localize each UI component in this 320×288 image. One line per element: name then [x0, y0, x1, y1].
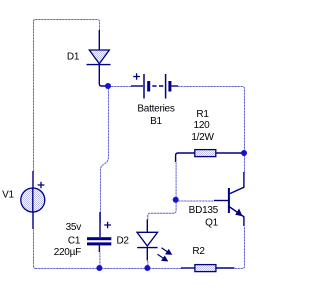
- wire LED cathode to bottom rail: [147, 261, 149, 269]
- svg-text:Q1: Q1: [205, 218, 219, 229]
- wire right rail from R1 junction down to Q1 collector stub: [244, 156, 246, 173]
- LED D2: [137, 220, 158, 261]
- wire R1 left lead vertical down to base junction: [175, 163, 177, 198]
- resistor R1: [176, 150, 242, 162]
- svg-text:R2: R2: [192, 246, 205, 257]
- node junction at Q1 base / R1 left: [173, 197, 179, 203]
- resistor R2: [181, 265, 235, 272]
- wire from D1 junction to battery left terminal: [109, 86, 132, 88]
- V1 plus mark: [38, 182, 45, 189]
- wire middle vertical from D1 junction down with jog to C1: [101, 89, 109, 223]
- wire top rail from V1 to D1: [34, 20, 100, 31]
- svg-text:B1: B1: [150, 116, 162, 127]
- svg-text:V1: V1: [2, 190, 14, 201]
- capacitor C1: [87, 212, 111, 252]
- svg-text:Batteries: Batteries: [137, 104, 174, 115]
- voltage source V1: [21, 171, 45, 229]
- wire bottom rail (left corner to R2 left lead): [36, 268, 182, 270]
- svg-text:35v: 35v: [66, 222, 82, 233]
- wire left rail upper (top corner to V1 top terminal): [33, 20, 35, 172]
- node junction at R1 right / right rail: [241, 150, 247, 156]
- svg-text:R1: R1: [196, 109, 209, 120]
- wire left rail lower (V1 bottom to bottom-left corner): [34, 230, 41, 269]
- svg-text:C1: C1: [68, 236, 81, 247]
- wire C1 bottom to bottom rail: [99, 253, 101, 269]
- battery B1: [131, 74, 178, 99]
- battery plus mark: [133, 73, 140, 80]
- wire base junction down-left to LED anode: [148, 203, 176, 221]
- svg-text:D2: D2: [116, 235, 129, 246]
- svg-text:1/2W: 1/2W: [191, 132, 214, 143]
- wire from battery right terminal to top-right corner down to R1 junction: [178, 87, 245, 152]
- LED D2 light arrows: [158, 248, 172, 261]
- svg-text:220µF: 220µF: [54, 247, 81, 258]
- diode D1: [87, 30, 111, 86]
- capacitor C1 plus mark: [104, 222, 111, 229]
- node junction below D1: [105, 83, 111, 89]
- wire R2 right lead up to Q1 emitter stub: [235, 227, 245, 269]
- node junction LED at bottom rail: [144, 265, 150, 271]
- svg-text:BD135: BD135: [189, 205, 219, 216]
- wire base junction to Q1 base stub: [179, 200, 215, 202]
- svg-text:D1: D1: [67, 52, 80, 63]
- node junction C1 at bottom rail: [96, 265, 102, 271]
- svg-text:120: 120: [194, 120, 211, 131]
- transistor Q1: [214, 172, 244, 226]
